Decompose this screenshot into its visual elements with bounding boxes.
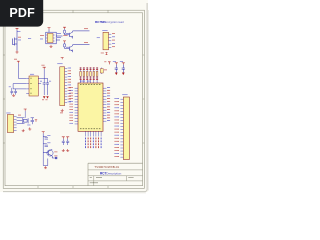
IC U3 body	[29, 76, 38, 96]
U1 bottom pin labels vertical	[85, 138, 101, 149]
connector J1	[103, 32, 109, 50]
connector J3 label	[123, 93, 128, 96]
power flag above crystal	[24, 109, 27, 111]
wire	[72, 45, 74, 46]
frame zone ticks right	[143, 55, 145, 143]
net labels	[57, 32, 61, 35]
title row4 text	[90, 181, 98, 184]
capacitor C8	[31, 118, 34, 124]
J1 net labels	[112, 32, 115, 35]
crystal Y1	[23, 120, 27, 123]
wire	[13, 83, 26, 85]
J2 pins	[65, 69, 68, 103]
ground arrows under C15 C16	[43, 96, 46, 98]
J1 left wire label	[97, 36, 100, 39]
ground below J2	[61, 109, 64, 112]
power flag PWR6	[122, 63, 125, 65]
schematic page background	[0, 0, 148, 192]
U1 right pins	[103, 88, 106, 121]
title block column dividers	[93, 176, 95, 186]
U2 pins	[46, 35, 55, 41]
connector J2	[60, 67, 65, 106]
wire	[56, 35, 62, 37]
U1 left pins	[75, 88, 78, 124]
net label	[84, 27, 88, 30]
J4 pins	[14, 116, 17, 130]
title row3 text	[90, 176, 92, 179]
transistor Q2	[65, 32, 73, 39]
capacitor C4	[115, 65, 118, 73]
ground arrow	[122, 73, 125, 76]
power flag above J2	[61, 58, 64, 60]
net label	[14, 58, 17, 61]
title block outer	[88, 163, 143, 186]
ground arrow	[115, 73, 118, 76]
U1 bottom pins	[86, 131, 102, 136]
cap labels	[40, 80, 42, 83]
capacitor C11	[62, 139, 65, 145]
IC U1 body	[78, 83, 103, 131]
power flag PWR5	[115, 63, 118, 65]
power flag above left chain	[17, 61, 20, 63]
capacitor C10	[43, 144, 48, 147]
svg-text:TV3007C/WXB-01: TV3007C/WXB-01	[94, 165, 119, 169]
connector J3	[123, 97, 129, 160]
ground below U2	[50, 45, 53, 48]
resistor array RN1	[80, 67, 99, 83]
Q5 labels	[55, 151, 58, 154]
U2 left net labels	[40, 34, 44, 37]
J3 pins	[120, 99, 123, 157]
power flag PB1	[66, 137, 69, 139]
net label	[18, 30, 21, 33]
ground	[66, 149, 69, 152]
U1 pin numbers bottom row	[80, 127, 100, 130]
page edge shadow right/bottom	[3, 3, 147, 192]
transistor Q3	[65, 46, 73, 53]
wire	[16, 30, 18, 36]
ground	[44, 166, 47, 169]
svg-text:Description: Description	[106, 172, 121, 176]
capacitor C13	[10, 88, 13, 95]
wire	[43, 69, 45, 78]
connector J4 label	[7, 112, 11, 115]
svg-text:Encryption read: Encryption read	[105, 20, 124, 24]
U1 left pin labels	[70, 87, 73, 124]
transistor Q5 circuit	[43, 149, 52, 158]
frame zone ticks left	[3, 55, 5, 143]
C4 label	[113, 60, 116, 63]
title block row lines	[88, 169, 143, 171]
resistor R9	[101, 68, 103, 75]
U2 body	[47, 34, 53, 43]
labels	[18, 114, 21, 117]
wire	[12, 84, 14, 89]
power flag P4	[63, 41, 66, 43]
ground	[16, 50, 19, 53]
ground J4	[28, 127, 31, 130]
svg-text:PDF: PDF	[9, 6, 35, 20]
ground below crystal	[22, 129, 25, 132]
power flag PB0	[62, 137, 65, 139]
J3 net labels	[115, 98, 119, 157]
power flag VCC above U3	[43, 67, 46, 69]
power flag PA	[42, 132, 45, 134]
R9 label	[104, 69, 107, 72]
capacitor C1 label	[28, 37, 31, 40]
power flag below J1	[101, 52, 104, 55]
Q1 labels	[18, 36, 21, 39]
wire	[17, 63, 19, 78]
ground under caps	[12, 94, 15, 97]
J2 net labels	[68, 68, 71, 103]
connector J1 label	[103, 29, 108, 32]
J1 pin wires	[109, 34, 112, 47]
sheet border frame outer	[3, 10, 144, 188]
power flag VCC1	[16, 28, 19, 30]
power flag above U2	[48, 28, 51, 30]
wires from J4	[17, 117, 25, 119]
resistor R3	[64, 43, 66, 49]
capacitor C12	[66, 139, 69, 145]
U3 pin marks inside	[30, 77, 32, 80]
IC U1 label	[80, 80, 85, 83]
U1 right pin labels	[107, 87, 110, 121]
wire	[13, 88, 26, 90]
IC U3 label	[30, 73, 34, 76]
op-amp U2 outline	[46, 32, 56, 44]
frame zone ticks bottom	[38, 186, 108, 189]
capacitor C15	[43, 78, 46, 95]
capacitor C14	[14, 89, 17, 95]
connector J4	[7, 115, 13, 133]
U1 pin numbers top row	[80, 83, 100, 86]
resistor R12	[52, 157, 56, 159]
connector J2 label	[58, 62, 63, 65]
capacitor C5	[122, 65, 125, 73]
resistor R2	[64, 29, 66, 35]
transistor Q1	[13, 37, 18, 51]
wire	[42, 133, 44, 165]
power flag P3	[63, 27, 66, 29]
C13 C14 labels	[9, 85, 11, 88]
C5 label	[120, 60, 123, 63]
sheet border frame inner	[5, 13, 143, 186]
power flag right	[35, 120, 37, 122]
wire down	[47, 159, 49, 166]
U3 left pins	[26, 78, 29, 93]
U3 right pins + wires	[38, 78, 47, 83]
net label	[84, 41, 88, 44]
PDF badge	[0, 0, 43, 27]
wire	[72, 31, 74, 32]
capacitor C16	[46, 78, 49, 95]
capacitor C9	[43, 137, 48, 140]
ground	[62, 149, 65, 152]
power flag near RN1	[108, 62, 111, 65]
frame zone ticks top	[38, 10, 108, 13]
